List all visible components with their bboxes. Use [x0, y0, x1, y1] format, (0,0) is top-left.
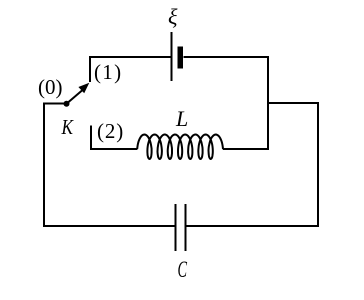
- battery (EMF source xi) short thick plate: [178, 47, 184, 69]
- wire: battery to top-right corner: [184, 56, 269, 58]
- node terminal (2) stub: [90, 126, 92, 151]
- switch K pivot junction dot: [64, 101, 70, 107]
- wire: left vertical: [43, 103, 45, 227]
- switch K arm (thrown to position 1): [67, 90, 84, 104]
- svg-text:(1): (1): [94, 60, 122, 84]
- wire: bottom-left corner to capacitor C: [43, 225, 175, 227]
- capacitor C left plate: [175, 204, 177, 251]
- wire: terminal (2) to inductor L left lead: [90, 148, 137, 150]
- svg-text:(0): (0): [38, 75, 63, 99]
- svg-text:(2): (2): [97, 119, 124, 143]
- svg-text:ξ: ξ: [168, 4, 178, 29]
- wire: terminal (1) to battery, top: [90, 56, 171, 58]
- wire: inner right vertical: [267, 56, 269, 149]
- wire: capacitor C to bottom-right corner: [187, 225, 320, 227]
- capacitor C right plate: [185, 204, 187, 251]
- inductor L coil winding: [137, 135, 223, 160]
- wire: jog junction to outer right: [267, 102, 318, 104]
- wire: inductor L right lead: [223, 148, 269, 150]
- svg-text:C: C: [178, 257, 188, 282]
- svg-text:L: L: [175, 106, 188, 131]
- svg-text:K: K: [61, 115, 74, 139]
- wire: outer right vertical: [317, 102, 319, 227]
- wire: node (0) stub to switch pivot: [43, 103, 67, 105]
- node terminal (1) stub: [89, 56, 91, 82]
- battery (EMF source xi) long thin plate: [171, 32, 173, 81]
- switch K arrowhead: [78, 83, 89, 94]
